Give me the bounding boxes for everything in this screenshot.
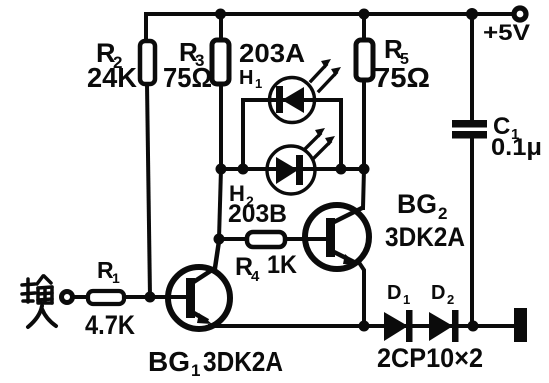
wire H2 row <box>221 167 364 171</box>
label C1 <box>491 113 542 161</box>
input terminal <box>62 292 73 303</box>
label R3 <box>163 37 212 93</box>
wire BG2 collector to H2 row <box>363 169 364 208</box>
svg-text:4: 4 <box>251 268 260 285</box>
node R4 / BG1 collector <box>214 234 225 245</box>
ground <box>514 308 527 342</box>
svg-text:3DK2A: 3DK2A <box>385 222 465 252</box>
svg-text:1: 1 <box>403 292 410 307</box>
transistor BG2 <box>305 205 369 269</box>
wire R1 to BG1 base <box>124 295 187 299</box>
svg-text:1: 1 <box>191 361 200 380</box>
wire R4 to BG2 base <box>285 237 328 241</box>
wire H2-row node down to R4 node <box>219 169 221 239</box>
svg-text:203B: 203B <box>228 200 287 228</box>
node top rail / R5 <box>359 9 370 20</box>
svg-text:24K: 24K <box>87 62 137 93</box>
svg-text:4.7K: 4.7K <box>85 310 135 340</box>
wire left drop from rail to R2 <box>144 14 148 41</box>
node H2 row / R3 <box>216 164 227 175</box>
wire H1 row <box>243 98 341 102</box>
terminal +5V <box>514 8 526 20</box>
node H2 row / H1 left branch <box>238 164 249 175</box>
diode D1 <box>384 310 413 342</box>
transistor BG1 <box>168 241 230 329</box>
LED H2 <box>267 128 335 194</box>
wire R3 bottom to H2 row <box>219 84 223 169</box>
svg-text:1K: 1K <box>267 251 297 279</box>
node H2 row / H1 right branch <box>336 164 347 175</box>
node top rail / R3 <box>215 9 226 20</box>
wire BG2 emitter down to bottom rail <box>360 264 364 326</box>
label BG1 3DK2A <box>148 346 283 380</box>
wire H1 right branch <box>339 100 343 169</box>
node bottom rail / right rail <box>468 321 479 332</box>
label H1 <box>239 67 262 91</box>
svg-text:203A: 203A <box>239 38 305 68</box>
svg-text:1: 1 <box>112 270 120 286</box>
wire R4 node to R4 body <box>219 237 247 241</box>
svg-text:D: D <box>387 282 401 304</box>
resistor R5 <box>356 14 373 80</box>
svg-text:+5V: +5V <box>483 20 530 45</box>
svg-text:H: H <box>239 67 253 89</box>
label D1 <box>387 282 410 307</box>
svg-text:2CP10×2: 2CP10×2 <box>377 343 483 373</box>
svg-text:0.1μ: 0.1μ <box>491 134 542 161</box>
node base / R2 <box>145 292 156 303</box>
wire right rail lower <box>470 138 474 326</box>
svg-text:75Ω: 75Ω <box>374 62 430 93</box>
resistor R3 <box>212 14 229 84</box>
label R1 <box>97 257 120 286</box>
node H2 row / R5 <box>359 164 370 175</box>
wire input terminal to R1 <box>74 295 88 299</box>
svg-text:75Ω: 75Ω <box>163 62 212 93</box>
svg-text:D: D <box>431 282 445 304</box>
label R4 1K <box>235 251 297 285</box>
svg-text:2: 2 <box>447 292 454 307</box>
label BG2 <box>397 189 447 223</box>
LED H1 <box>270 59 342 123</box>
svg-text:2: 2 <box>438 204 447 223</box>
resistor R2 <box>140 41 155 84</box>
wire bottom rail <box>210 324 515 328</box>
capacitor C1 <box>452 120 487 139</box>
wire R2 bottom to base node <box>147 84 150 297</box>
resistor R1 <box>88 291 124 304</box>
node bottom rail / BG2 emitter <box>359 321 370 332</box>
wire H1 left branch <box>241 100 245 169</box>
node top rail / right rail <box>466 8 478 20</box>
wire top rail <box>146 12 513 16</box>
label R5 <box>374 34 430 93</box>
wire right rail upper <box>470 14 474 121</box>
wire R5 bottom to H2 row <box>362 80 366 169</box>
label shuru (input) hanzi <box>22 276 56 327</box>
diode D2 <box>429 310 459 342</box>
svg-text:BG: BG <box>148 346 190 377</box>
resistor R4 <box>247 232 285 247</box>
label D2 <box>431 282 454 307</box>
svg-text:BG: BG <box>397 189 437 219</box>
svg-text:1: 1 <box>255 76 262 91</box>
label H2 <box>229 181 254 209</box>
label R2 <box>87 38 137 93</box>
svg-text:3DK2A: 3DK2A <box>203 346 283 377</box>
